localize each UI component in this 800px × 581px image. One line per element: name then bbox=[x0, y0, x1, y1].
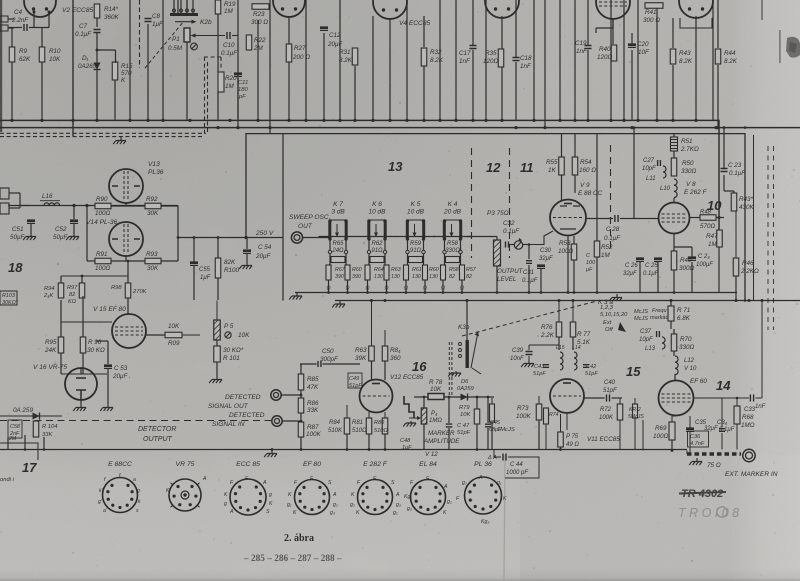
resistor R20 1M bbox=[218, 72, 224, 92]
wire bbox=[288, 62, 290, 120]
socket VR75 bbox=[169, 479, 201, 511]
bus line 3 / box feed bbox=[246, 134, 745, 301]
wire bbox=[186, 42, 188, 120]
dashed pointer K2b bbox=[145, 21, 184, 68]
capacitor C58 2nF box bbox=[8, 420, 22, 438]
resistor R86 33K bbox=[298, 398, 304, 413]
resistor R55 1K bbox=[559, 157, 565, 175]
wire bbox=[11, 62, 13, 120]
socket VR75 ticks bbox=[197, 483, 199, 485]
series resistor of K6 bbox=[367, 250, 370, 253]
junction bbox=[438, 119, 441, 122]
junction bbox=[236, 126, 239, 129]
wire bbox=[147, 24, 149, 120]
wire bbox=[406, 0, 408, 120]
capacitor C28 0.1uF bbox=[615, 215, 618, 222]
junction bbox=[573, 119, 576, 122]
ground attenuator bus left bbox=[289, 293, 302, 300]
wire bbox=[111, 260, 145, 262]
wire bbox=[501, 16, 503, 120]
junction bbox=[146, 119, 149, 122]
wire bbox=[673, 234, 675, 252]
socket EL84 bbox=[411, 480, 446, 515]
junction bbox=[71, 119, 74, 122]
dashed shield vertical riser bbox=[204, 57, 206, 134]
junction bbox=[694, 119, 697, 122]
resistor R41 300ohm bbox=[645, 3, 663, 9]
switch K2b bbox=[170, 13, 198, 16]
tube top row 5 bbox=[596, 0, 630, 19]
paper fold line lower middle bbox=[504, 455, 505, 581]
section 17 bracket bbox=[0, 443, 38, 460]
junction bbox=[532, 119, 535, 122]
junction bbox=[304, 119, 307, 122]
wire bbox=[217, 92, 219, 120]
wire attenuator through bbox=[433, 236, 472, 238]
ground ext marker bbox=[689, 458, 702, 465]
junction bbox=[716, 126, 719, 129]
wire bbox=[282, 420, 301, 422]
box section 13 left edge bbox=[282, 134, 284, 301]
wire bbox=[533, 0, 535, 120]
wire bbox=[672, 18, 674, 48]
tube V12 ECC85 bbox=[360, 380, 393, 413]
bus K3a line bbox=[335, 300, 800, 302]
wire bbox=[485, 0, 487, 120]
resistor R15 570K bbox=[112, 62, 118, 80]
scan noise speckles bbox=[511, 13, 512, 14]
shielded dashed pair lower left bbox=[0, 132, 206, 134]
wire bbox=[80, 400, 82, 404]
capacitor C12 20uF bbox=[320, 26, 328, 29]
wire attenuator through bbox=[319, 236, 358, 238]
junction bbox=[10, 119, 13, 122]
tube V9 E88CC bbox=[550, 200, 586, 236]
socket E88CC bbox=[103, 478, 138, 513]
wire bbox=[631, 33, 633, 44]
junction bbox=[609, 119, 612, 122]
wire bbox=[587, 50, 589, 120]
junction bbox=[622, 119, 625, 122]
wire bbox=[612, 18, 614, 44]
junction bbox=[287, 119, 290, 122]
bus detector bottom bbox=[0, 449, 687, 451]
junction bbox=[188, 119, 191, 122]
junction bbox=[454, 119, 457, 122]
capacitor C35 32uF bbox=[686, 427, 694, 430]
resistor R40 120ohm bbox=[611, 45, 617, 61]
resistor R100 82K bbox=[215, 258, 221, 278]
wire bbox=[674, 246, 692, 248]
junction bbox=[371, 119, 374, 122]
wire bbox=[96, 33, 98, 120]
resistor R96 30Kohm bbox=[80, 337, 86, 353]
wire 250V bbox=[178, 237, 283, 239]
resistor R93 30K bbox=[145, 258, 161, 264]
resistor R27 200ohm bbox=[286, 44, 292, 62]
wire bbox=[127, 298, 129, 314]
pot P75 49ohm bbox=[558, 432, 564, 447]
wire bbox=[544, 0, 546, 128]
junction bbox=[161, 119, 164, 122]
wire bbox=[623, 0, 625, 120]
wire bbox=[680, 18, 712, 28]
wire bbox=[177, 0, 179, 14]
wire bbox=[558, 301, 560, 323]
shunt resistor left bbox=[326, 265, 331, 280]
junction bbox=[268, 126, 271, 129]
resistor R32 8.2K bbox=[421, 48, 427, 66]
junctions on K3a bus bbox=[370, 299, 373, 302]
resistor R85 47K bbox=[298, 374, 304, 390]
series resistor of K4 bbox=[443, 250, 446, 253]
bus attenuator bottom bbox=[295, 292, 737, 294]
junction bbox=[40, 119, 43, 122]
resistor R23 300ohm bbox=[252, 4, 269, 10]
wire V8 left bbox=[656, 218, 659, 220]
resistor R9 62K bbox=[9, 47, 15, 62]
potentiometer P1 0.5M bbox=[184, 28, 190, 42]
wire bbox=[637, 0, 639, 120]
capacitor C23 0.1uF bbox=[721, 169, 728, 172]
capacitor C19 1nF bbox=[585, 46, 592, 49]
resistor R35 120ohm bbox=[498, 49, 504, 67]
series resistor of K7 bbox=[328, 250, 331, 253]
wire bbox=[587, 0, 589, 45]
wire bbox=[561, 134, 563, 157]
resistor R91 100ohm bbox=[95, 258, 111, 264]
wire bbox=[41, 28, 43, 121]
wire V10 right bbox=[694, 397, 750, 399]
wire bbox=[186, 0, 188, 11]
wire bbox=[472, 0, 474, 45]
dashed shield box top bbox=[204, 56, 221, 58]
wire C44 box bbox=[494, 450, 501, 458]
potentiometer P4 1Mohm bbox=[421, 408, 427, 424]
wire bbox=[96, 18, 98, 27]
capacitor C54 20uF bbox=[243, 249, 251, 252]
junction bbox=[338, 119, 341, 122]
resistor R79 10K bbox=[474, 409, 480, 424]
resistor R84 510K bbox=[344, 418, 350, 434]
wire bbox=[472, 50, 474, 120]
capacitor C49 51pF box bbox=[348, 373, 362, 388]
capacitor C20 10F bbox=[628, 43, 636, 46]
resistor R31 8.2K bbox=[352, 48, 358, 65]
wire stubs to bottom bus bbox=[7, 438, 9, 450]
wire P1 wiper to C10 bbox=[195, 35, 225, 37]
left margin component stubs bbox=[0, 188, 9, 199]
ground on shield bus bbox=[113, 137, 126, 144]
junction bbox=[471, 119, 474, 122]
shunt resistor left bbox=[365, 265, 370, 280]
resistor R87 100K bbox=[298, 422, 304, 437]
resistor R68 1Mohm bbox=[734, 406, 740, 424]
wire v11 bottom bbox=[566, 413, 568, 430]
inductor L10 bbox=[674, 179, 677, 185]
socket ECC85 bbox=[230, 479, 266, 515]
wire right verticals bbox=[744, 126, 747, 129]
resistor R44 8.2K bbox=[715, 49, 721, 64]
tube V16 VR75 bbox=[65, 368, 97, 400]
wire marker row bbox=[414, 396, 428, 398]
junction bbox=[422, 119, 425, 122]
resistor R92 30K bbox=[145, 203, 161, 209]
resistor R49 300ohm bbox=[671, 251, 677, 270]
wire bbox=[455, 0, 457, 120]
tube V14 PL36 bbox=[109, 222, 143, 256]
capacitor C53 20uF bbox=[104, 364, 112, 367]
resistor R82 360K bbox=[382, 346, 388, 361]
junction bbox=[558, 119, 561, 122]
wire bbox=[60, 276, 62, 283]
junction bbox=[671, 119, 674, 122]
junction bbox=[500, 119, 503, 122]
wire bbox=[631, 50, 633, 120]
wire attenuator out bbox=[467, 236, 498, 238]
wire bbox=[372, 16, 374, 120]
wire bbox=[717, 65, 719, 128]
inductor L15 bbox=[560, 352, 563, 358]
resistor R73 100K bbox=[536, 404, 542, 420]
wire bbox=[439, 0, 441, 120]
shunt resistor left bbox=[441, 265, 446, 280]
wire bbox=[761, 0, 763, 20]
series resistor of K5 bbox=[406, 250, 409, 253]
resistor R70 330ohm bbox=[671, 334, 677, 351]
junction bbox=[543, 126, 546, 129]
crystal KR-2 5McJS bbox=[633, 404, 638, 418]
ext marker coax hatched bbox=[687, 452, 741, 455]
arrow to P4 bbox=[409, 417, 419, 419]
junction bbox=[322, 119, 325, 122]
left margin top stubs bbox=[0, 16, 8, 22]
resistor R71 6.8K bbox=[668, 306, 674, 321]
wire bbox=[717, 0, 719, 48]
capacitor C51 50uF bbox=[27, 219, 35, 222]
resistor R54 160ohm bbox=[572, 157, 578, 175]
junction bbox=[714, 126, 717, 129]
wire bbox=[656, 8, 658, 120]
dashed separator 11 bbox=[509, 148, 511, 258]
dashed separator 10-11 bbox=[610, 145, 612, 252]
junction bbox=[655, 119, 658, 122]
connector detected in bbox=[272, 416, 282, 426]
shielded cable K3b drop bbox=[448, 342, 450, 397]
resistor R47 1M bbox=[717, 230, 723, 247]
capacitor C36 4.7nF box bbox=[688, 431, 709, 447]
wire K3b stem bbox=[466, 301, 468, 341]
resistor R19 1M bbox=[215, 0, 221, 14]
socket PL36 bbox=[465, 477, 502, 514]
wire tube V2 pins bbox=[33, 12, 35, 28]
wire right collector bbox=[177, 206, 179, 262]
shunt resistor left bbox=[404, 265, 409, 280]
capacitor C44 1000pF bbox=[503, 454, 506, 461]
wire bbox=[146, 334, 165, 336]
wire bbox=[0, 415, 62, 417]
tube top row 6 bbox=[679, 0, 713, 18]
diode D6 0A259 bbox=[461, 394, 468, 401]
resistor R14* 360K bbox=[94, 4, 100, 18]
inductor L14 bbox=[574, 352, 577, 358]
wire V10 cathode bbox=[672, 415, 676, 417]
wire bbox=[672, 65, 674, 120]
wire bbox=[444, 239, 446, 250]
capacitor C18 1nF bbox=[513, 58, 520, 61]
dashed pointer K3a-K3b bbox=[462, 301, 597, 336]
resistor R53 100ohm bbox=[571, 244, 577, 260]
wire bbox=[515, 62, 517, 120]
dashed separator bbox=[139, 0, 141, 68]
wire bbox=[114, 79, 116, 120]
resistor R43* 430K bbox=[731, 193, 737, 211]
dashed separator 12 bbox=[471, 148, 473, 258]
wire bbox=[11, 28, 13, 48]
inductor L12 bbox=[675, 356, 678, 362]
resistor R74 390 bbox=[544, 408, 549, 424]
ground bus bottom bbox=[264, 450, 277, 457]
wire bbox=[423, 66, 425, 120]
bus line 2 bbox=[0, 127, 800, 129]
wire bbox=[673, 329, 675, 334]
junction bbox=[484, 119, 487, 122]
resistor R63 39K bbox=[369, 346, 375, 361]
wire attenuator through bbox=[358, 236, 397, 238]
capacitor C45 68pF bbox=[485, 424, 491, 427]
wire grid v9 bbox=[523, 244, 529, 246]
wire V8 top bbox=[673, 198, 675, 203]
inductor L13 bbox=[662, 337, 665, 343]
resistor R10 10K bbox=[39, 47, 45, 62]
wire bbox=[162, 0, 164, 120]
wire bbox=[257, 20, 259, 120]
wire bbox=[288, 16, 290, 44]
wire bbox=[300, 363, 317, 365]
junction bbox=[573, 291, 576, 294]
stepped wire to P4 bbox=[404, 396, 414, 418]
resistor R09 10K bbox=[165, 332, 182, 338]
wire bbox=[695, 16, 697, 120]
wire main y205 bbox=[8, 205, 178, 207]
socket E282F bbox=[358, 480, 393, 515]
wire bbox=[371, 301, 373, 347]
resistor R72 100K bbox=[617, 404, 623, 420]
tube V10 EF80 bbox=[659, 381, 694, 416]
tube top row 4 bbox=[485, 0, 519, 18]
wire bbox=[405, 280, 407, 293]
junction bbox=[514, 126, 517, 129]
bus line 1 (anode supply) bbox=[0, 120, 719, 230]
wire bbox=[574, 0, 576, 120]
wire sweep bbox=[303, 237, 329, 239]
wire attenuator through bbox=[396, 236, 435, 238]
capacitor C34 0.1uF bbox=[719, 429, 725, 432]
wire bbox=[559, 0, 561, 120]
resistor R76 2.2K bbox=[556, 322, 562, 337]
wire bbox=[72, 0, 74, 136]
resistor R77 5.1K bbox=[570, 322, 576, 337]
wire bbox=[269, 0, 271, 134]
wire bbox=[328, 280, 330, 293]
wire marker bus bbox=[642, 420, 644, 451]
wire bbox=[97, 49, 116, 51]
ground C48 bbox=[403, 421, 416, 427]
wire bbox=[690, 217, 701, 219]
tube V11 ECC85 bbox=[550, 379, 584, 413]
resistor R46 2.2Kohm bbox=[733, 258, 739, 276]
shunt resistor right bbox=[423, 265, 428, 280]
capacitor C52 50uF bbox=[70, 219, 78, 222]
ground K3a area bbox=[609, 294, 622, 301]
scan smudge top right bbox=[786, 37, 800, 58]
tube V4 ECC85 bbox=[373, 0, 407, 19]
wire bbox=[718, 216, 721, 219]
wire bbox=[61, 321, 112, 323]
wire bbox=[86, 206, 88, 262]
pot adjust marker P1 bbox=[191, 43, 198, 50]
resistor R22 2M bbox=[246, 35, 252, 50]
junction bbox=[388, 119, 391, 122]
shunt resistor right bbox=[345, 265, 350, 280]
tube top row 2 bbox=[273, 0, 305, 17]
wire bbox=[237, 0, 239, 128]
wire bbox=[423, 16, 425, 47]
junction bbox=[256, 119, 259, 122]
wire bbox=[407, 239, 409, 250]
wire bbox=[129, 0, 131, 120]
wire bbox=[634, 218, 656, 220]
socket EF80 bbox=[295, 480, 330, 515]
wire bbox=[389, 18, 391, 120]
capacitor C25 0.1uF bbox=[654, 257, 662, 260]
wire bbox=[712, 0, 714, 120]
wire bbox=[612, 19, 614, 28]
wire bbox=[339, 0, 341, 120]
wire V9 cathode bbox=[567, 236, 569, 293]
resistors R94 R97 bottom row bbox=[58, 283, 64, 298]
wire bbox=[673, 151, 675, 158]
junction bbox=[95, 119, 98, 122]
capacitor C33 1nF bbox=[750, 395, 753, 402]
junction bbox=[636, 119, 639, 122]
junction bbox=[228, 119, 231, 122]
shunt resistor right bbox=[384, 265, 389, 280]
wire bbox=[610, 0, 612, 120]
resistor R90 100ohm bbox=[95, 203, 111, 209]
dashed line detector bbox=[0, 420, 272, 422]
capacitor C11 180pF bbox=[234, 72, 242, 75]
connector ext marker bbox=[743, 449, 755, 461]
socket VR75 center electrode bbox=[181, 491, 189, 499]
resistor R81 510ohm bbox=[366, 418, 372, 434]
junction bbox=[630, 126, 633, 129]
tube V8 E262F bbox=[659, 203, 690, 234]
wire bbox=[367, 280, 369, 293]
resistor R78 10K bbox=[428, 394, 444, 400]
ground shield bbox=[448, 371, 461, 377]
wire bbox=[111, 205, 145, 207]
wire bbox=[73, 206, 75, 220]
wire bbox=[300, 364, 302, 374]
shunt resistor right bbox=[460, 265, 465, 280]
wire bbox=[72, 0, 74, 136]
wire bbox=[305, 0, 307, 120]
output level pot bbox=[514, 241, 522, 249]
capacitor C43 51pF bbox=[543, 365, 549, 368]
wire bbox=[735, 211, 737, 258]
ground k3a bus bbox=[332, 301, 345, 308]
